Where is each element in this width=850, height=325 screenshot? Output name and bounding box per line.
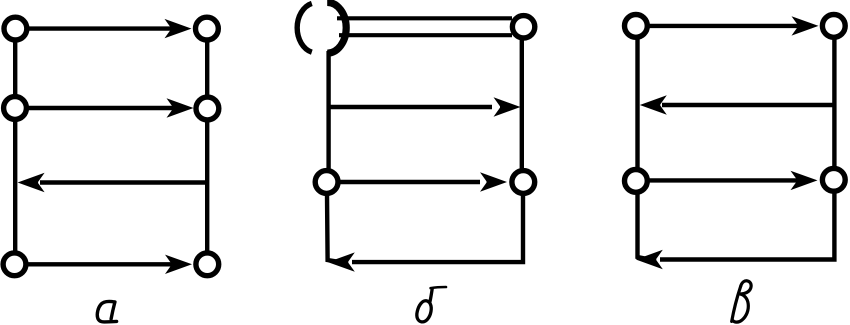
edge: double line top (lower) (339, 33, 512, 37)
wire: right vertical of figure a (205, 30, 209, 263)
label v (hand-drawn script Cyrillic в) (732, 281, 751, 322)
edge arrow a3 (third row, right to left) (18, 173, 208, 192)
wire: left vertical of figure b (lower) (327, 194, 340, 262)
edge arrow b1 (upper inner, left to right) (329, 97, 521, 116)
node b mid-left (315, 171, 338, 194)
wire: right vertical lower + bottom line of figure b (352, 194, 523, 262)
node a top-right (196, 17, 219, 40)
label b (Cyrillic italic б) (416, 287, 446, 323)
wire: right vertical of figure v (820, 28, 834, 260)
edge arrow v2 (second row, right to left) (640, 95, 835, 114)
node a mid-left (4, 97, 27, 120)
node v top-right (822, 15, 845, 38)
edge arrow a1 (top, left to right) (22, 19, 192, 38)
edge arrow v3 (third row, left to right) (644, 171, 818, 190)
wire: left vertical of figure b (upper) (326, 51, 330, 172)
node a mid-right (196, 97, 219, 120)
node a bottom-right (196, 253, 219, 276)
node v mid-right (822, 168, 845, 191)
edge arrow v1 (top, left to right) (644, 16, 819, 35)
edge arrow b2 (middle row, left to right) (335, 172, 507, 191)
label a (Cyrillic italic а) (97, 301, 116, 321)
wire: right vertical of figure b (520, 38, 524, 170)
node v mid-left (625, 170, 648, 193)
edge arrow a4 (bottom, left to right) (22, 255, 192, 274)
wire: left vertical of figure v (638, 28, 651, 260)
edge arrow a2 (second row, left to right) (22, 98, 194, 117)
node b mid-right (512, 171, 535, 194)
edge arrow v4 (bottom, right to left) (636, 250, 820, 269)
node a bottom-left (3, 253, 26, 276)
node a top-left (4, 17, 27, 40)
node b top-right (512, 16, 534, 38)
edge: double line top (upper) (337, 16, 512, 20)
node b top-left (open circle drawn as two arcs) (297, 2, 346, 53)
edge arrow b3 head (bottom, pointing left) (328, 252, 355, 271)
node v top-left (625, 15, 648, 38)
wire: left vertical of figure a (13, 30, 17, 263)
